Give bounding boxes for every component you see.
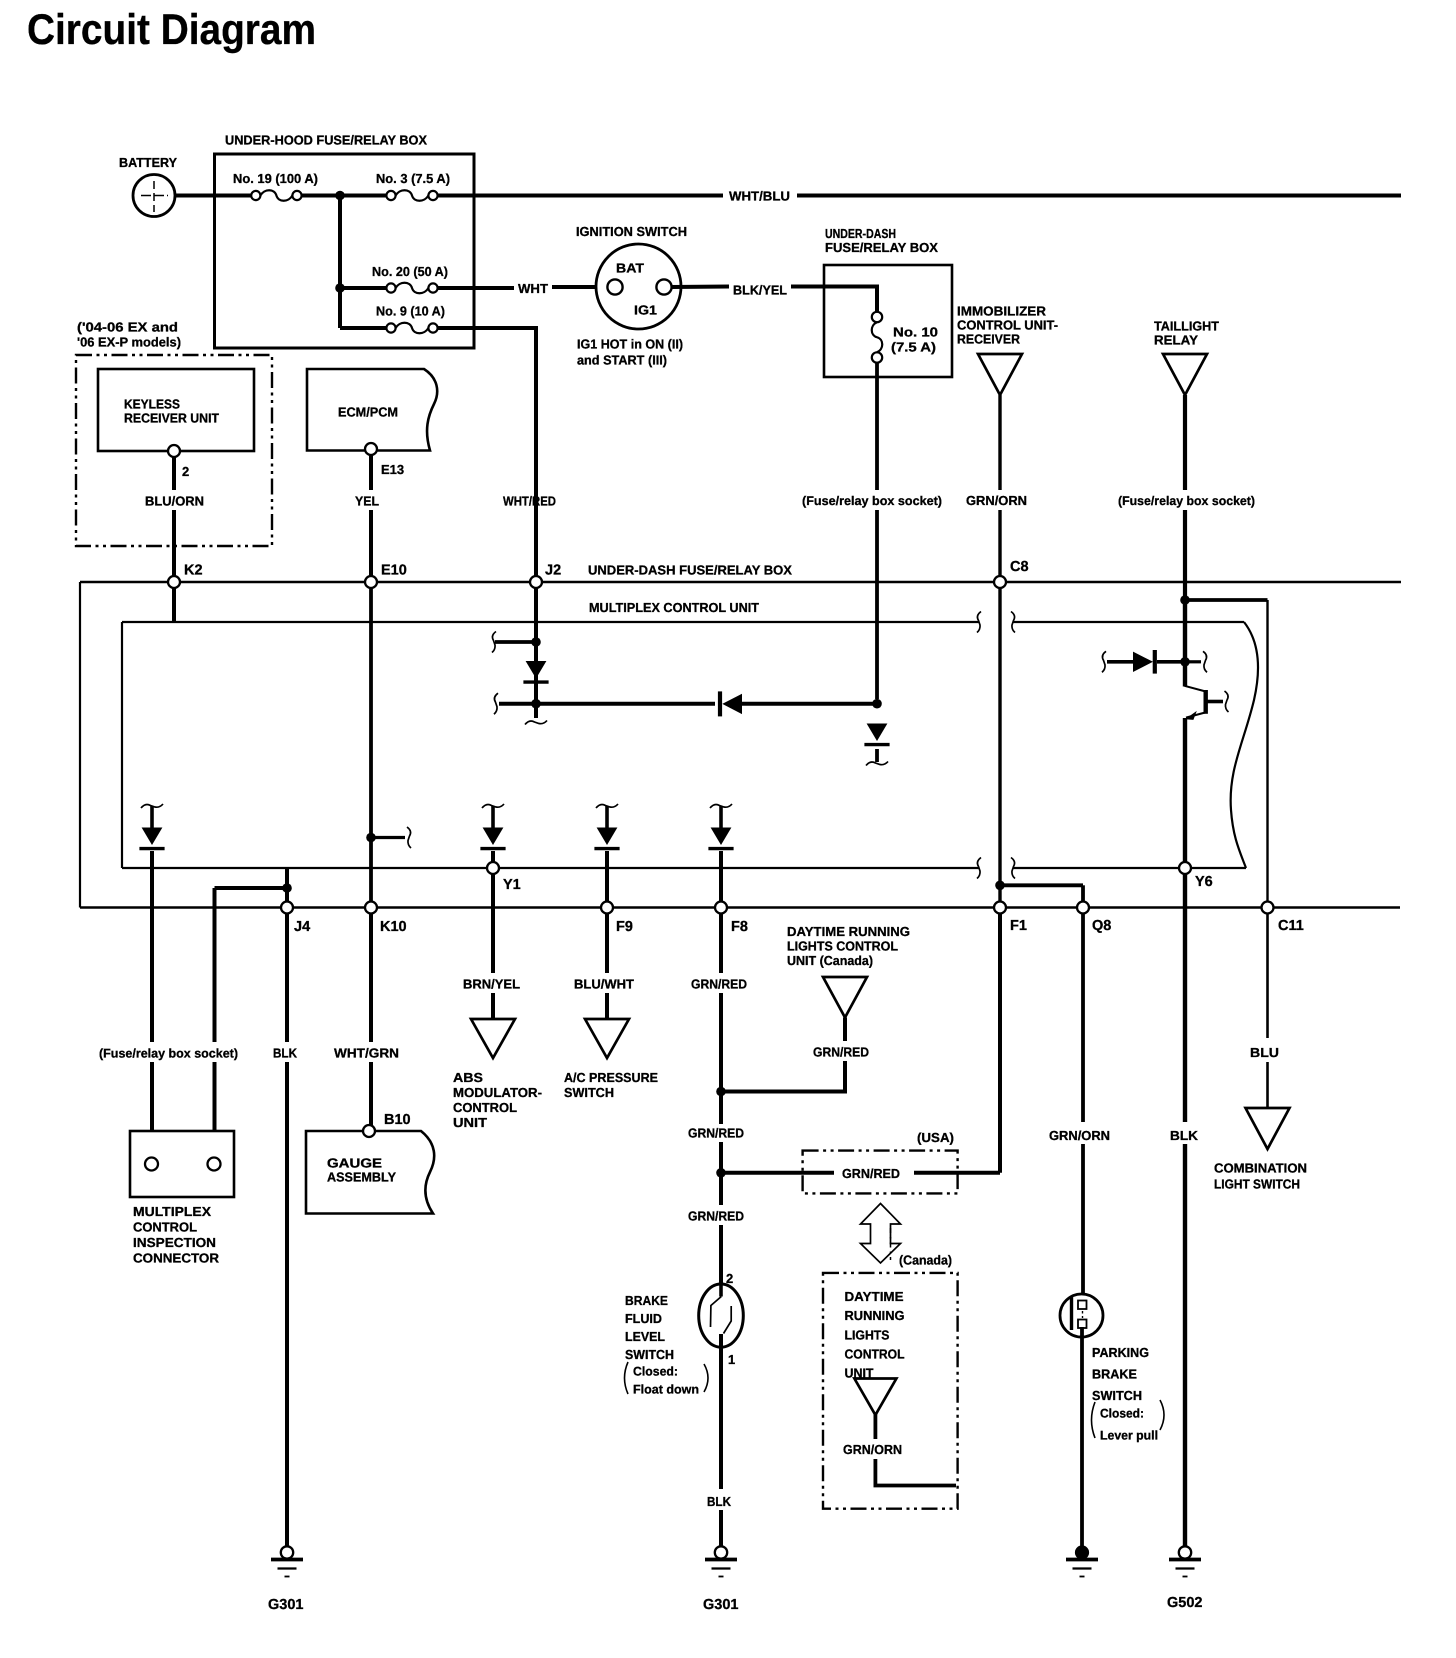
wire diode to F8 — [719, 851, 723, 902]
wire fuse No.10 down (upper) — [875, 363, 879, 490]
svg-text:LIGHT SWITCH: LIGHT SWITCH — [1214, 1177, 1300, 1192]
node Q8 — [1077, 902, 1089, 914]
junction under-hood bus A — [335, 191, 345, 201]
wire-end hook diode feed hook (F9 line) — [596, 804, 618, 808]
svg-text:UNDER-DASH: UNDER-DASH — [825, 226, 896, 241]
alternative indicator arrow (USA/Canada) — [861, 1204, 901, 1264]
wire fuse No.20 to WHT label — [438, 286, 514, 290]
wire-end hook J2 stub end bottom — [525, 721, 547, 725]
svg-text:IGNITION SWITCH: IGNITION SWITCH — [576, 224, 687, 239]
wire fuse No.10 down to diode junction — [875, 510, 879, 699]
svg-text:Y6: Y6 — [1195, 874, 1213, 890]
svg-text:No. 10: No. 10 — [893, 325, 938, 340]
svg-text:C8: C8 — [1010, 559, 1029, 575]
svg-text:SWITCH: SWITCH — [1092, 1388, 1142, 1403]
node K10 — [365, 902, 377, 914]
fuse No. 10 (7.5 A) — [872, 312, 883, 363]
ground G502 — [1169, 1546, 1201, 1576]
wire diode feed (F9 line) — [605, 806, 609, 828]
node E10 — [365, 576, 377, 588]
wire jumper down to Q8 — [1081, 885, 1085, 901]
svg-text:(7.5 A): (7.5 A) — [891, 340, 936, 355]
svg-text:GRN/RED: GRN/RED — [691, 977, 747, 992]
wire C11 drop wire — [1266, 600, 1268, 902]
wire inspection connector wire lower — [150, 1062, 154, 1164]
svg-text:GAUGE: GAUGE — [327, 1156, 382, 1171]
wire under-hood internal bus — [338, 196, 342, 329]
svg-text:GRN/RED: GRN/RED — [688, 1209, 744, 1224]
node keyless pin 2 — [168, 445, 180, 457]
multiplex control unit box — [122, 622, 1258, 868]
wire-end hook stub end left of diode — [1102, 651, 1106, 672]
svg-text:ASSEMBLY: ASSEMBLY — [327, 1170, 396, 1185]
fuse No. 20 (50 A) — [386, 283, 437, 294]
node ECM pin E13 — [365, 443, 377, 455]
junction diode/taillight junction — [1180, 657, 1190, 667]
wire bus to fuse No.9 — [340, 326, 386, 330]
svg-text:BLK/YEL: BLK/YEL — [733, 283, 787, 298]
svg-text:BRN/YEL: BRN/YEL — [463, 977, 520, 992]
svg-text:LIGHTS CONTROL: LIGHTS CONTROL — [787, 939, 898, 954]
wire GRN/RED seg2 — [719, 993, 723, 1124]
svg-text:WHT/RED: WHT/RED — [503, 494, 556, 509]
wire WHT to ignition switch BAT — [552, 285, 608, 289]
wire WHT/GRN upper — [369, 914, 373, 1043]
svg-text:Float down: Float down — [633, 1383, 699, 1397]
svg-text:LIGHTS: LIGHTS — [845, 1328, 890, 1343]
wire J2 down inside multiplex — [534, 588, 538, 718]
fuse No. 3 (7.5 A) — [386, 190, 437, 201]
svg-text:GRN/RED: GRN/RED — [688, 1126, 744, 1141]
wire brake fluid switch to BLK label — [719, 1334, 723, 1489]
wire-end hook stub end at E10 — [407, 827, 411, 848]
keyless receiver unit — [98, 369, 254, 451]
component symbol taillight relay (triangle) — [1163, 354, 1207, 395]
wire-end hook multiplex bottom edge gap left — [977, 858, 981, 879]
ignition switch — [596, 244, 681, 329]
svg-text:GRN/RED: GRN/RED — [813, 1045, 869, 1060]
svg-text:(Canada): (Canada) — [899, 1253, 952, 1268]
svg-text:G301: G301 — [703, 1597, 738, 1613]
svg-text:BLK: BLK — [1170, 1128, 1199, 1143]
wire BLK (J4) upper — [285, 914, 289, 1043]
node inspection connector pin B — [208, 1158, 221, 1171]
wire fuse No.3 to WHT/BLU label — [438, 194, 723, 198]
svg-text:ECM/PCM: ECM/PCM — [338, 405, 398, 420]
wire Y6 down to BLK label — [1183, 874, 1187, 1122]
svg-text:FLUID: FLUID — [625, 1311, 662, 1326]
wire-end hook diode feed hook (inspection connector line) — [141, 804, 163, 808]
wire GRN/ORN lead to box edge — [875, 1459, 956, 1486]
junction GRN/RED junction (DRL Canada) — [716, 1087, 726, 1097]
svg-text:A/C PRESSURE: A/C PRESSURE — [564, 1070, 658, 1085]
wire fuse No.19 to fuse No.3 — [302, 194, 387, 198]
wire internal bus right segment — [742, 702, 877, 706]
wire diode to F9 — [605, 851, 609, 902]
svg-text:BATTERY: BATTERY — [119, 155, 177, 170]
node F1 — [994, 902, 1006, 914]
svg-text:BRAKE: BRAKE — [625, 1293, 668, 1308]
svg-text:RELAY: RELAY — [1154, 333, 1198, 348]
node J4 — [281, 902, 293, 914]
svg-text:UNIT (Canada): UNIT (Canada) — [787, 953, 873, 968]
daytime running lights control unit (Canada option) box — [823, 1273, 958, 1509]
svg-text:WHT: WHT — [518, 281, 548, 296]
wire diode feed (inspection connector line) — [150, 806, 154, 828]
diode multiplex internal diode (inspection connector line) — [142, 828, 163, 846]
component symbol daytime running lights control unit (Canada) (triangle) — [823, 977, 867, 1018]
junction under-hood bus B — [335, 283, 345, 293]
svg-text:CONNECTOR: CONNECTOR — [133, 1251, 220, 1266]
svg-text:SWITCH: SWITCH — [625, 1347, 674, 1362]
diode internal (points left) — [718, 691, 722, 716]
svg-text:No. 19 (100 A): No. 19 (100 A) — [233, 171, 318, 186]
wire multiplex to J4 — [285, 868, 289, 902]
svg-text:GRN/ORN: GRN/ORN — [1049, 1128, 1110, 1143]
(USA) connection box (dash-dot) — [803, 1151, 958, 1194]
svg-text:J4: J4 — [294, 919, 310, 935]
svg-text:MODULATOR-: MODULATOR- — [453, 1085, 542, 1100]
svg-text:COMBINATION: COMBINATION — [1214, 1161, 1307, 1176]
svg-text:J2: J2 — [545, 563, 561, 579]
svg-text:UNDER-HOOD FUSE/RELAY BOX: UNDER-HOOD FUSE/RELAY BOX — [225, 133, 427, 148]
svg-text:ABS: ABS — [453, 1070, 483, 1085]
wire bus to fuse No.20 — [340, 286, 386, 290]
wire YEL upper — [369, 455, 373, 490]
node K2 — [168, 576, 180, 588]
wire internal stub at J2 — [495, 640, 536, 644]
wire BLU upper — [1266, 914, 1269, 1039]
svg-text:BAT: BAT — [616, 261, 644, 276]
wire GRN/RED seg3 — [719, 1142, 723, 1205]
under-dash fuse/relay box (main) — [80, 582, 1401, 908]
svg-text:K2: K2 — [184, 563, 203, 579]
wire-end hook multiplex top edge gap right — [1011, 612, 1015, 633]
svg-text:MULTIPLEX CONTROL UNIT: MULTIPLEX CONTROL UNIT — [589, 600, 759, 615]
wire inspection connector wire 2 lower — [213, 1062, 217, 1164]
svg-text:BLU: BLU — [1250, 1045, 1279, 1060]
svg-text:Y1: Y1 — [503, 877, 521, 893]
wire parking brake switch to ground — [1080, 1327, 1084, 1547]
wire GRN/ORN to parking brake switch — [1081, 1144, 1085, 1302]
svg-text:B10: B10 — [384, 1112, 411, 1128]
keyless receiver unit option box (dash-dot) — [76, 355, 272, 546]
wire inspection connector wire 2 upper — [213, 888, 217, 1042]
component symbol daytime running lights control unit (Canada box) (triangle) — [854, 1379, 896, 1416]
svg-text:GRN/RED: GRN/RED — [842, 1166, 900, 1181]
svg-text:BLU/WHT: BLU/WHT — [574, 977, 634, 992]
wire internal bus left segment — [499, 702, 715, 706]
node B10 — [363, 1125, 375, 1137]
ground G301 (center) — [705, 1546, 737, 1576]
wire C8 to F1 wire — [998, 588, 1001, 902]
multiplex control inspection connector — [130, 1131, 234, 1197]
svg-text:BLK: BLK — [273, 1046, 298, 1061]
svg-text:DAYTIME RUNNING: DAYTIME RUNNING — [787, 924, 910, 939]
svg-text:('04-06 EX and: ('04-06 EX and — [77, 320, 178, 335]
transistor (multiplex output) — [1185, 686, 1224, 718]
svg-text:No. 20 (50 A): No. 20 (50 A) — [372, 264, 448, 279]
wire taillight line upper (collector) — [1183, 600, 1187, 687]
wire-end hook multiplex bottom edge gap right — [1011, 858, 1015, 879]
junction J2/diode junction lower — [531, 699, 541, 709]
wire GRN/RED (USA) right segment — [914, 1171, 1000, 1175]
svg-text:CONTROL UNIT-: CONTROL UNIT- — [957, 318, 1058, 333]
ground G301 (left) — [271, 1546, 303, 1576]
svg-text:F8: F8 — [731, 919, 748, 935]
wire GRN/ORN lead upper (box) — [874, 1414, 878, 1439]
svg-text:(Fuse/relay box socket): (Fuse/relay box socket) — [1118, 494, 1255, 508]
wire GRN/ORN upper — [1081, 914, 1085, 1123]
svg-text:1: 1 — [728, 1352, 735, 1367]
wire-end hook transistor stub end — [1225, 691, 1229, 712]
svg-text:F1: F1 — [1010, 918, 1027, 934]
diode multiplex internal diode (No.10 line) — [867, 724, 888, 742]
wire-end hook diode stub end — [866, 762, 888, 766]
svg-text:FUSE/RELAY BOX: FUSE/RELAY BOX — [825, 240, 938, 255]
svg-text:DAYTIME: DAYTIME — [845, 1289, 904, 1304]
svg-text:GRN/ORN: GRN/ORN — [843, 1442, 902, 1457]
junction F1/Q8 jumper junction — [995, 881, 1005, 891]
svg-text:RECEIVER: RECEIVER — [957, 332, 1021, 347]
svg-text:MULTIPLEX: MULTIPLEX — [133, 1204, 211, 1219]
wire E10 to K10 through multiplex unit — [369, 588, 373, 905]
wire DRL Canada lead to junction — [725, 1061, 845, 1092]
svg-text:PARKING: PARKING — [1092, 1345, 1149, 1360]
wire GRN/RED to brake fluid switch — [719, 1225, 723, 1285]
fuse No. 9 (10 A) — [386, 323, 437, 334]
svg-text:'06 EX-P models): '06 EX-P models) — [77, 335, 181, 350]
svg-text:IG1 HOT in ON (II): IG1 HOT in ON (II) — [577, 337, 683, 352]
node inspection connector pin A — [145, 1158, 158, 1171]
svg-text:GRN/ORN: GRN/ORN — [966, 493, 1027, 508]
svg-text:(Fuse/relay box socket): (Fuse/relay box socket) — [99, 1047, 238, 1061]
svg-text:BLK: BLK — [707, 1494, 732, 1509]
wire BLU/WHT to A/C switch — [605, 993, 609, 1019]
svg-text:RECEIVER UNIT: RECEIVER UNIT — [124, 411, 219, 426]
component symbol immobilizer control unit-receiver (triangle) — [978, 354, 1022, 395]
under-dash fuse/relay box (fuse box) — [824, 265, 952, 377]
junction J4 branch junction — [282, 883, 292, 893]
svg-text:and START (III): and START (III) — [577, 353, 667, 368]
wire WHT/BLU to right edge — [797, 194, 1401, 198]
fuse No. 19 (100 A) — [251, 190, 301, 201]
wire-end hook multiplex top edge gap left — [977, 612, 981, 633]
wire internal stub at E10 — [371, 836, 405, 839]
wire GRN/RED (USA) left segment — [725, 1171, 834, 1175]
component symbol A/C pressure switch (triangle) — [585, 1019, 629, 1058]
wire diode stub down — [875, 749, 879, 762]
wire BLU/ORN upper — [172, 457, 176, 490]
wire-end hook diode feed hook (Y1 line) — [482, 804, 504, 808]
svg-text:E10: E10 — [381, 563, 407, 579]
node F8 — [715, 902, 727, 914]
svg-text:UNDER-DASH FUSE/RELAY BOX: UNDER-DASH FUSE/RELAY BOX — [588, 563, 792, 578]
svg-text:G502: G502 — [1167, 1595, 1202, 1611]
wire BLK/YEL into under-dash box — [791, 287, 877, 312]
node Y6 — [1179, 862, 1191, 874]
svg-text:IG1: IG1 — [634, 303, 657, 318]
wire F1 down to USA wire — [998, 914, 1002, 1173]
wire DRL Canada lead upper — [843, 1018, 847, 1042]
wire BRN/YEL to ABS — [491, 993, 495, 1019]
parking brake switch — [1060, 1294, 1103, 1337]
component symbol combination light switch (triangle) — [1246, 1108, 1290, 1149]
node F9 — [601, 902, 613, 914]
wire BLU/WHT upper — [605, 914, 609, 974]
wire diode feed (F8 line) — [719, 806, 723, 828]
wire-end hook diode feed hook (F8 line) — [710, 804, 732, 808]
wire GRN/ORN to C8 — [998, 510, 1001, 576]
wire-end hook stub end right of junction — [1203, 651, 1207, 672]
svg-text:Circuit Diagram: Circuit Diagram — [27, 6, 316, 54]
svg-text:KEYLESS: KEYLESS — [124, 397, 180, 412]
wire BLK (J4) to G301 — [285, 1062, 289, 1548]
wire-end hook stub end left of J2 — [492, 632, 496, 653]
svg-text:(USA): (USA) — [917, 1130, 954, 1145]
svg-text:C11: C11 — [1278, 918, 1304, 934]
svg-text:No. 3 (7.5 A): No. 3 (7.5 A) — [376, 171, 450, 186]
svg-text:WHT/BLU: WHT/BLU — [729, 189, 790, 204]
svg-text:BRAKE: BRAKE — [1092, 1367, 1137, 1382]
under-hood fuse/relay box — [215, 154, 475, 348]
svg-text:No. 9 (10 A): No. 9 (10 A) — [376, 304, 445, 319]
wire ignition IG1 to BLK/YEL label — [672, 285, 729, 290]
svg-text:F9: F9 — [616, 919, 633, 935]
node C8 — [994, 576, 1006, 588]
junction E10 internal stub — [366, 833, 376, 843]
junction fuse No.10 / internal bus junction — [872, 699, 882, 709]
svg-text:Closed:: Closed: — [633, 1365, 678, 1379]
svg-text:TAILLIGHT: TAILLIGHT — [1154, 319, 1219, 334]
wire diode feed (Y1 line) — [491, 806, 495, 828]
svg-text:UNIT: UNIT — [453, 1115, 487, 1130]
wire immobilizer to GRN/ORN label — [998, 395, 1001, 490]
wire inspection connector wire upper — [150, 851, 154, 1042]
node J2 — [530, 576, 542, 588]
junction J2/diode junction upper — [531, 637, 541, 647]
diode multiplex internal diode (F8 line) — [711, 828, 732, 846]
svg-text:G301: G301 — [268, 1597, 303, 1613]
svg-text:(Fuse/relay box socket): (Fuse/relay box socket) — [802, 494, 942, 508]
wire branch to C11 drop — [1185, 598, 1268, 602]
svg-text:SWITCH: SWITCH — [564, 1085, 614, 1100]
wire BLU/ORN to K2 — [172, 510, 176, 578]
wire WHT/RED fuse No.9 to J2 upper — [438, 328, 536, 578]
junction taillight branch junction — [1180, 595, 1190, 605]
ground ground (parking brake) — [1066, 1546, 1098, 1577]
wire BLK to G301 — [719, 1510, 723, 1548]
svg-text:Lever pull: Lever pull — [1100, 1429, 1158, 1443]
diode multiplex internal diode (J2) — [526, 661, 547, 679]
wire K2 into multiplex unit — [172, 588, 176, 622]
svg-text:RUNNING: RUNNING — [845, 1308, 905, 1323]
svg-text:BLU/ORN: BLU/ORN — [145, 494, 204, 509]
wire BLU to combination light switch — [1266, 1062, 1269, 1108]
diode multiplex internal diode (F9 line) — [597, 828, 618, 846]
node C11 — [1262, 902, 1274, 914]
svg-text:INSPECTION: INSPECTION — [133, 1235, 216, 1250]
node Y1 — [487, 862, 499, 874]
wire taillight line lower (emitter) — [1183, 718, 1187, 862]
wire diode to Y1 — [491, 851, 495, 862]
wire taillight relay down to branch — [1183, 510, 1187, 600]
svg-text:CONTROL: CONTROL — [133, 1220, 197, 1235]
wire WHT/GRN to B10 — [369, 1062, 373, 1125]
wire taillight relay down (upper) — [1183, 395, 1187, 490]
wire branch to inspection connector — [215, 886, 288, 890]
wire Y1 down to BRN/YEL — [491, 874, 495, 973]
svg-text:IMMOBILIZER: IMMOBILIZER — [957, 304, 1047, 319]
wire GRN/RED seg1 — [719, 914, 723, 974]
svg-text:E13: E13 — [381, 462, 404, 477]
svg-text:Q8: Q8 — [1092, 918, 1111, 934]
wire jumper to Q8 — [1000, 883, 1083, 887]
wire-end hook stub end left of internal bus — [494, 693, 498, 714]
battery — [133, 175, 175, 217]
svg-text:WHT/GRN: WHT/GRN — [334, 1046, 399, 1061]
diode multiplex internal diode (Y1 line) — [483, 828, 504, 846]
svg-text:CONTROL: CONTROL — [845, 1347, 905, 1362]
ECM/PCM — [307, 369, 437, 451]
svg-text:2: 2 — [182, 464, 189, 479]
wire BLK to G502 — [1183, 1144, 1187, 1548]
junction GRN/RED junction (USA) — [716, 1168, 726, 1178]
svg-text:YEL: YEL — [355, 494, 379, 509]
wire YEL to E10 — [369, 510, 373, 578]
wire stub right of junction — [1185, 660, 1201, 663]
wire battery to fuse No.19 — [175, 194, 251, 198]
svg-text:K10: K10 — [380, 919, 407, 935]
svg-text:LEVEL: LEVEL — [625, 1329, 665, 1344]
gauge assembly — [306, 1131, 434, 1214]
svg-text:Closed:: Closed: — [1100, 1407, 1144, 1421]
svg-text:CONTROL: CONTROL — [453, 1100, 517, 1115]
component symbol ABS modulator-control unit (triangle) — [471, 1019, 515, 1058]
